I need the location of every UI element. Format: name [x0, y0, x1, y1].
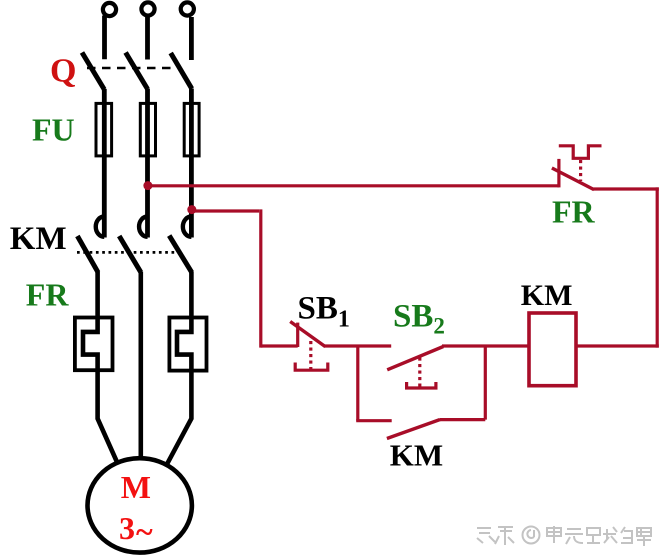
- wire branch right riser: [484, 346, 487, 420]
- svg-text:M: M: [121, 469, 151, 505]
- overload relay FR contact fixed post: [557, 159, 560, 188]
- contactor KM main contact pole3 fixed hook: [183, 217, 191, 237]
- terminal L1: [103, 3, 116, 16]
- wire Q pole1 to KM pole1 through FU1: [102, 89, 107, 238]
- svg-text:SB1: SB1: [298, 291, 350, 333]
- contactor KM main contact pole2 blade: [119, 236, 141, 272]
- fuse FU3: [184, 103, 199, 155]
- terminal L2: [141, 2, 154, 15]
- pushbutton SB2 cap: [407, 382, 436, 388]
- contactor KM linkage dotted line: [77, 251, 176, 254]
- switch Q pole 1 blade: [82, 53, 104, 90]
- svg-text:SB2: SB2: [393, 298, 445, 338]
- svg-text:FR: FR: [26, 277, 70, 313]
- motor M circle: [88, 458, 192, 552]
- terminal L3: [181, 2, 194, 15]
- pushbutton SB2 actuator dotted link: [418, 358, 421, 388]
- wire branch bottom left: [356, 419, 392, 422]
- pushbutton SB2 blade (NO): [387, 347, 443, 370]
- overload relay FR contact blade (NC): [552, 168, 594, 190]
- svg-text:Q: Q: [50, 53, 76, 90]
- svg-text:FR: FR: [552, 194, 596, 230]
- pushbutton SB1 cap: [295, 363, 328, 371]
- wire Q pole2 to KM pole2 through FU2: [145, 89, 150, 238]
- junction node on L3 (control tap): [187, 205, 196, 214]
- contactor KM auxiliary contact blade (NO self-holding): [387, 420, 440, 439]
- wire L3 to Q: [189, 17, 194, 60]
- overload relay FR heater symbol: [559, 146, 602, 159]
- svg-text:FU: FU: [32, 111, 75, 147]
- thermal overload FR heater element pole3 box: [169, 318, 206, 371]
- fuse FU1: [96, 103, 112, 155]
- wire right rail vertical: [656, 187, 659, 347]
- thermal overload FR heater element pole1 box: [75, 318, 113, 371]
- contactor KM main contact pole1 fixed hook: [96, 217, 104, 237]
- contactor KM main contact pole2 fixed hook: [139, 217, 147, 237]
- pushbutton SB1 blade (NC): [290, 322, 325, 347]
- switch Q linkage dashed line: [87, 67, 175, 69]
- pushbutton SB1 actuator dotted link: [309, 341, 312, 369]
- wire FR contact to right rail: [594, 187, 659, 190]
- svg-text:KM: KM: [10, 221, 67, 257]
- wire L1 to Q: [102, 16, 107, 60]
- junction node on L2 (control tap): [143, 181, 152, 190]
- wire L2 to Q: [145, 16, 150, 60]
- switch Q pole 3 blade: [171, 53, 192, 89]
- fuse FU2: [140, 103, 155, 155]
- wire KM coil to right rail: [576, 344, 659, 347]
- wire left rail to SB1: [261, 344, 298, 347]
- wire SB2 to KM coil: [442, 344, 529, 347]
- wire control tap from L3: [192, 209, 259, 212]
- svg-text:KM: KM: [521, 279, 573, 312]
- contactor coil KM: [529, 313, 576, 386]
- wire Q pole3 to KM pole3 through FU3: [189, 89, 194, 238]
- overload relay FR actuator dotted link: [579, 160, 582, 181]
- wire KM pole3 to motor through FR heater (with heater jog): [167, 272, 192, 465]
- switch Q pole 2 blade: [126, 53, 148, 90]
- wire branch left drop (parallel branch): [356, 346, 359, 421]
- wire KM pole2 to motor: [139, 272, 144, 461]
- contactor KM main contact pole3 blade: [169, 236, 192, 273]
- wire control tap from L2 to FR contact: [148, 184, 559, 187]
- svg-text:KM: KM: [390, 438, 443, 473]
- watermark 头条@电气自动化应用 (drawn as gray strokes): [477, 526, 651, 546]
- wire SB1 to SB2: [324, 344, 391, 347]
- contactor KM main contact pole1 blade: [77, 236, 98, 272]
- pushbutton SB1 fixed post: [296, 323, 299, 347]
- wire left rail vertical: [259, 209, 262, 347]
- wire KM pole1 to motor through FR heater (with heater jog): [83, 272, 117, 463]
- wire branch bottom right: [440, 418, 485, 421]
- svg-text:3~: 3~: [119, 510, 153, 550]
